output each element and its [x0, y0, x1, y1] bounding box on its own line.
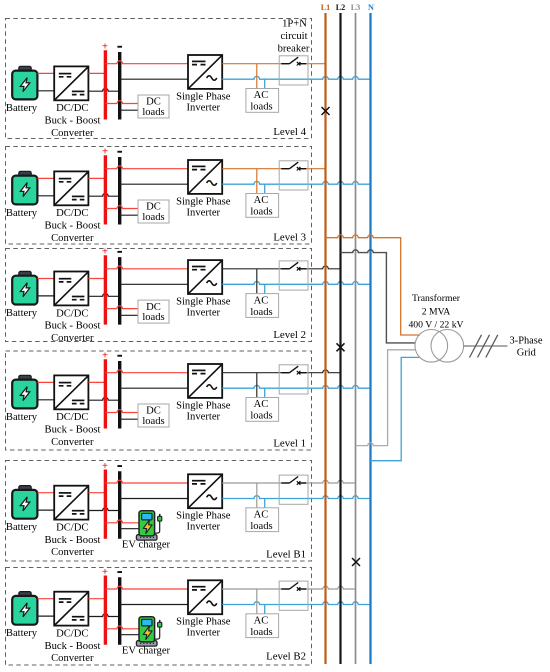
wire breaker to bus Level3	[299, 168, 326, 170]
svg-text:Converter: Converter	[51, 547, 94, 558]
wire black rail to DC loads Level2	[120, 314, 138, 316]
svg-text:DC/DC: DC/DC	[56, 629, 88, 640]
DC loads box Level4	[138, 95, 169, 118]
label DC/DC Buck - Boost Converter Level1	[45, 412, 101, 448]
svg-text:Level 3: Level 3	[273, 232, 306, 244]
label AC loads Level3	[250, 195, 272, 218]
wire converter+ to red rail Level3	[88, 177, 105, 179]
wire red rail to inverter Level1	[105, 370, 188, 373]
negative DC rail (-) LevelB1	[118, 471, 121, 539]
svg-text:Battery: Battery	[6, 103, 38, 114]
bus L1	[324, 13, 326, 664]
label - Level4	[117, 46, 122, 48]
AC loads box Level1	[246, 398, 279, 422]
single phase inverter Level2	[188, 260, 222, 294]
label DC/DC Buck - Boost Converter LevelB2	[45, 629, 101, 665]
wire inverter phase out LevelB2	[222, 588, 289, 590]
dashed enclosure box Level 1	[6, 351, 312, 450]
wire inverter phase out LevelB1	[222, 482, 289, 484]
svg-text:2 MVA: 2 MVA	[422, 306, 451, 317]
wire neutral stub to AC loads Level2	[264, 284, 266, 293]
single phase inverter LevelB1	[188, 474, 222, 508]
X mark on bus L3	[352, 558, 360, 566]
svg-text:AC: AC	[254, 195, 269, 206]
EV charger icon LevelB2	[136, 617, 161, 646]
breaker switch LevelB2	[281, 583, 306, 591]
wire converter+ to red rail LevelB1	[88, 492, 105, 494]
svg-text:loads: loads	[250, 521, 272, 532]
breaker switch Level3	[281, 162, 306, 170]
label DC/DC Buck - Boost Converter Level4	[45, 103, 101, 139]
svg-text:loads: loads	[142, 107, 164, 118]
label DC loads Level3	[142, 202, 164, 223]
wire neutral stub to AC loads Level3	[264, 184, 266, 193]
EV charger icon LevelB1	[136, 511, 161, 540]
wire neutral stub to AC loads Level1	[264, 388, 266, 397]
positive DC rail (+) LevelB2	[104, 576, 107, 645]
wire feeder N to transformer	[371, 357, 420, 460]
wire battery- to converter LevelB2	[37, 615, 54, 617]
X mark on bus L2	[337, 343, 345, 351]
svg-text:Inverter: Inverter	[187, 307, 221, 318]
bus L3	[355, 13, 357, 664]
wire phase stub to AC loads Level1	[256, 373, 258, 398]
single phase inverter LevelB2	[188, 580, 222, 614]
label - Level3	[117, 151, 122, 153]
svg-text:Buck - Boost: Buck - Boost	[45, 535, 101, 546]
wire phase stub to AC loads LevelB1	[256, 483, 258, 508]
svg-text:Battery: Battery	[6, 522, 38, 533]
svg-text:+: +	[102, 351, 108, 362]
svg-text:loads: loads	[142, 416, 164, 427]
battery Level4	[12, 66, 37, 99]
label Single Phase Inverter LevelB2	[176, 617, 231, 639]
wire battery- to converter Level1	[37, 399, 54, 401]
svg-text:+: +	[102, 247, 108, 258]
label DC loads Level1	[142, 406, 164, 427]
label DC loads Level2	[142, 302, 164, 323]
DC loads box Level3	[138, 200, 169, 223]
wire inverter neutral to bus N Level1	[222, 385, 370, 388]
svg-text:EV charger: EV charger	[122, 646, 171, 657]
svg-text:loads: loads	[250, 627, 272, 638]
wire red rail to inverter Level3	[105, 166, 188, 169]
svg-text:Converter: Converter	[51, 333, 94, 344]
wire converter- to black rail LevelB1	[88, 508, 119, 511]
label Single Phase Inverter Level1	[176, 400, 231, 422]
breaker switch Level4	[281, 57, 306, 65]
label Single Phase Inverter LevelB1	[176, 511, 231, 533]
circuit breaker box LevelB2	[279, 581, 308, 610]
label Single Phase Inverter Level2	[176, 296, 231, 318]
svg-text:Converter: Converter	[51, 233, 94, 244]
wire red rail to DC loads Level4	[105, 101, 138, 104]
svg-text:Inverter: Inverter	[187, 102, 221, 113]
label Single Phase Inverter Level3	[176, 196, 231, 218]
wire phase stub to AC loads Level2	[256, 269, 258, 294]
wire black rail to EV charger LevelB2	[120, 634, 140, 636]
label - Level2	[117, 251, 122, 253]
AC loads box Level4	[246, 89, 279, 113]
svg-text:AC: AC	[254, 399, 269, 410]
svg-text:AC: AC	[254, 295, 269, 306]
DC/DC buck-boost converter LevelB2	[54, 592, 88, 626]
wire battery- to converter Level2	[37, 295, 54, 297]
wire red rail to inverter Level2	[105, 266, 188, 269]
wire black rail to inverter Level4	[120, 78, 188, 80]
wire red rail to EV charger LevelB2	[105, 626, 139, 629]
circuit breaker box Level1	[279, 365, 308, 394]
DC/DC buck-boost converter LevelB1	[54, 486, 88, 520]
circuit breaker box Level4	[279, 56, 308, 85]
svg-text:loads: loads	[250, 207, 272, 218]
label 1P+N circuit breaker	[278, 19, 310, 55]
svg-text:L2: L2	[336, 3, 346, 12]
label AC loads LevelB2	[250, 616, 272, 639]
wire breaker to bus Level1	[299, 370, 341, 373]
wire feeder L3 to transformer	[356, 350, 416, 446]
wire converter- to black rail LevelB2	[88, 614, 119, 617]
dashed enclosure box Level 2	[6, 249, 312, 342]
wire black rail to DC loads Level4	[120, 109, 138, 111]
wire phase stub to AC loads Level3	[256, 169, 258, 194]
svg-text:Level B1: Level B1	[266, 549, 306, 561]
svg-text:Converter: Converter	[51, 128, 94, 139]
wire converter- to black rail Level1	[88, 397, 119, 400]
label AC loads Level4	[250, 90, 272, 113]
svg-text:EV charger: EV charger	[122, 540, 171, 551]
breaker switch Level1	[281, 366, 306, 374]
svg-text:loads: loads	[142, 312, 164, 323]
wire red rail to inverter Level4	[105, 61, 188, 64]
label - Level1	[117, 355, 122, 357]
svg-text:AC: AC	[254, 510, 269, 521]
breaker switch LevelB1	[281, 477, 306, 485]
DC/DC buck-boost converter Level2	[54, 272, 88, 306]
wire converter+ to red rail Level4	[88, 72, 105, 74]
label AC loads LevelB1	[250, 510, 272, 533]
svg-text:+: +	[102, 567, 108, 578]
wire red rail to DC loads Level3	[105, 206, 138, 209]
DC/DC buck-boost converter Level1	[54, 375, 88, 409]
wire red rail to DC loads Level1	[105, 410, 138, 413]
svg-text:Buck - Boost: Buck - Boost	[45, 425, 101, 436]
wire battery- to converter LevelB1	[37, 509, 54, 511]
wire red rail to inverter LevelB1	[105, 480, 188, 483]
svg-text:Level 2: Level 2	[273, 329, 306, 341]
svg-text:DC/DC: DC/DC	[56, 412, 88, 423]
single phase inverter Level4	[188, 55, 222, 89]
svg-text:DC/DC: DC/DC	[56, 308, 88, 319]
svg-text:+: +	[102, 461, 108, 472]
svg-text:Level B2: Level B2	[266, 651, 306, 663]
svg-text:Single Phase: Single Phase	[176, 511, 231, 522]
wire breaker to bus Level4	[299, 63, 326, 65]
negative DC rail (-) Level4	[118, 52, 121, 120]
AC loads box LevelB2	[246, 614, 279, 638]
wire neutral stub to AC loads Level4	[264, 79, 266, 88]
label Single Phase Inverter Level4	[176, 91, 231, 113]
dashed enclosure box Level B1	[6, 461, 312, 562]
positive DC rail (+) Level4	[104, 50, 107, 119]
wire inverter phase out Level4	[222, 63, 289, 65]
wire black rail to DC loads Level3	[120, 214, 138, 216]
single phase inverter Level1	[188, 364, 222, 398]
wire battery+ to converter LevelB2	[37, 598, 54, 600]
svg-text:Buck - Boost: Buck - Boost	[45, 116, 101, 127]
wire black rail to inverter LevelB1	[120, 498, 188, 500]
svg-text:+: +	[102, 147, 108, 158]
wire breaker to bus Level2	[299, 266, 341, 269]
dashed enclosure box Level 4	[6, 19, 312, 139]
svg-text:Battery: Battery	[6, 208, 38, 219]
svg-text:Level 4: Level 4	[273, 126, 306, 138]
wire converter- to black rail Level2	[88, 294, 119, 297]
wire inverter neutral to bus N LevelB2	[222, 602, 370, 605]
battery Level1	[12, 375, 37, 408]
wire inverter phase out Level1	[222, 372, 289, 374]
svg-text:Single Phase: Single Phase	[176, 400, 231, 411]
negative DC rail (-) Level2	[118, 257, 121, 325]
wire red rail to inverter LevelB2	[105, 586, 188, 589]
label - LevelB1	[117, 465, 122, 467]
wire transformer to grid	[464, 345, 508, 347]
wire battery+ to converter LevelB1	[37, 492, 54, 494]
wire converter+ to red rail LevelB2	[88, 598, 105, 600]
wire black rail to inverter Level3	[120, 183, 188, 185]
wire breaker to bus LevelB2	[299, 586, 356, 589]
wire converter- to black rail Level4	[88, 88, 119, 91]
negative DC rail (-) Level1	[118, 361, 121, 429]
svg-text:loads: loads	[250, 411, 272, 422]
label AC loads Level2	[250, 295, 272, 318]
label DC/DC Buck - Boost Converter Level3	[45, 208, 101, 244]
svg-text:loads: loads	[250, 307, 272, 318]
svg-text:3-Phase: 3-Phase	[510, 336, 543, 347]
wire black rail to inverter Level1	[120, 387, 188, 389]
wire battery+ to converter Level2	[37, 278, 54, 280]
positive DC rail (+) Level3	[104, 155, 107, 224]
svg-text:AC: AC	[254, 90, 269, 101]
svg-text:breaker: breaker	[278, 44, 310, 55]
label - LevelB2	[117, 571, 122, 573]
svg-text:DC/DC: DC/DC	[56, 523, 88, 534]
svg-text:DC/DC: DC/DC	[56, 103, 88, 114]
svg-text:L3: L3	[351, 3, 361, 12]
svg-text:Single Phase: Single Phase	[176, 91, 231, 102]
wire inverter neutral to bus N LevelB1	[222, 496, 370, 499]
wire converter+ to red rail Level1	[88, 381, 105, 383]
svg-text:Single Phase: Single Phase	[176, 617, 231, 628]
positive DC rail (+) Level2	[104, 255, 107, 324]
svg-text:Inverter: Inverter	[187, 628, 221, 639]
AC loads box LevelB1	[246, 508, 279, 532]
circuit breaker box Level3	[279, 161, 308, 190]
wire black rail to inverter LevelB2	[120, 604, 188, 606]
wire neutral stub to AC loads LevelB2	[264, 605, 266, 614]
label Transformer 2 MVA 400 V / 22 kV	[408, 293, 463, 330]
DC loads box Level1	[138, 404, 169, 427]
wire battery+ to converter Level4	[37, 72, 54, 74]
wire black rail to EV charger LevelB1	[120, 528, 140, 530]
wire converter+ to red rail Level2	[88, 278, 105, 280]
DC loads box Level2	[138, 300, 169, 323]
svg-text:Inverter: Inverter	[187, 411, 221, 422]
DC/DC buck-boost converter Level4	[54, 66, 88, 100]
svg-text:Inverter: Inverter	[187, 522, 221, 533]
svg-text:Buck - Boost: Buck - Boost	[45, 321, 101, 332]
positive DC rail (+) Level1	[104, 359, 107, 428]
svg-text:loads: loads	[250, 102, 272, 113]
svg-text:N: N	[368, 3, 374, 12]
negative DC rail (-) Level3	[118, 157, 121, 225]
svg-text:Converter: Converter	[51, 437, 94, 448]
wire phase stub to AC loads LevelB2	[256, 589, 258, 614]
wire inverter neutral to bus N Level2	[222, 281, 370, 284]
svg-text:Single Phase: Single Phase	[176, 196, 231, 207]
svg-text:Grid: Grid	[517, 347, 537, 358]
svg-text:AC: AC	[254, 616, 269, 627]
positive DC rail (+) LevelB1	[104, 470, 107, 539]
battery Level2	[12, 271, 37, 304]
wire phase stub to AC loads Level4	[256, 64, 258, 89]
svg-text:Battery: Battery	[6, 412, 38, 423]
wire black rail to inverter Level2	[120, 283, 188, 285]
label DC loads Level4	[142, 97, 164, 118]
battery LevelB1	[12, 486, 37, 519]
label 3-Phase Grid	[510, 336, 543, 359]
wire battery- to converter Level3	[37, 195, 54, 197]
svg-text:Inverter: Inverter	[187, 207, 221, 218]
wire inverter phase out Level3	[222, 168, 289, 170]
wire breaker to bus LevelB1	[299, 480, 356, 483]
bus L2	[339, 13, 341, 664]
AC loads box Level3	[246, 194, 279, 218]
svg-text:L1: L1	[321, 3, 331, 12]
circuit breaker box Level2	[279, 261, 308, 290]
wire feeder L1 to transformer	[326, 235, 421, 335]
wire feeder L2 to transformer	[341, 250, 416, 343]
svg-text:Level 1: Level 1	[273, 438, 306, 450]
wire red rail to DC loads Level2	[105, 306, 138, 309]
wire battery+ to converter Level3	[37, 177, 54, 179]
label AC loads Level1	[250, 399, 272, 422]
svg-text:circuit: circuit	[280, 31, 307, 42]
DC/DC buck-boost converter Level3	[54, 171, 88, 205]
X mark on bus L1	[322, 107, 330, 115]
svg-text:loads: loads	[142, 212, 164, 223]
breaker switch Level2	[281, 262, 306, 270]
wire red rail to EV charger LevelB1	[105, 520, 139, 523]
battery LevelB2	[12, 592, 37, 625]
wire inverter phase out Level2	[222, 268, 289, 270]
svg-text:Buck - Boost: Buck - Boost	[45, 221, 101, 232]
dashed enclosure box Level B2	[6, 568, 312, 666]
svg-text:Single Phase: Single Phase	[176, 296, 231, 307]
label DC/DC Buck - Boost Converter LevelB1	[45, 523, 101, 559]
battery Level3	[12, 171, 37, 204]
bus N	[369, 13, 371, 664]
wire battery- to converter Level4	[37, 90, 54, 92]
transformer T1 (two windings)	[415, 330, 464, 363]
wire inverter neutral to bus N Level4	[222, 76, 370, 79]
AC loads box Level2	[246, 294, 279, 318]
circuit breaker box LevelB1	[279, 475, 308, 504]
svg-text:Converter: Converter	[51, 653, 94, 664]
wire neutral stub to AC loads LevelB1	[264, 499, 266, 508]
wire battery+ to converter Level1	[37, 381, 54, 383]
wire inverter neutral to bus N Level3	[222, 181, 370, 184]
three-phase slash marks	[470, 335, 498, 358]
svg-text:1P+N: 1P+N	[282, 19, 307, 30]
svg-text:400 V / 22 kV: 400 V / 22 kV	[408, 319, 463, 330]
svg-text:Transformer: Transformer	[412, 293, 461, 304]
svg-text:+: +	[102, 42, 108, 53]
svg-text:Battery: Battery	[6, 308, 38, 319]
label DC/DC Buck - Boost Converter Level2	[45, 308, 101, 344]
wire converter- to black rail Level3	[88, 193, 119, 196]
dashed enclosure box Level 3	[6, 147, 312, 245]
negative DC rail (-) LevelB2	[118, 577, 121, 645]
svg-text:DC/DC: DC/DC	[56, 208, 88, 219]
svg-text:Buck - Boost: Buck - Boost	[45, 641, 101, 652]
single phase inverter Level3	[188, 160, 222, 194]
wire black rail to DC loads Level1	[120, 418, 138, 420]
svg-text:Battery: Battery	[6, 628, 38, 639]
